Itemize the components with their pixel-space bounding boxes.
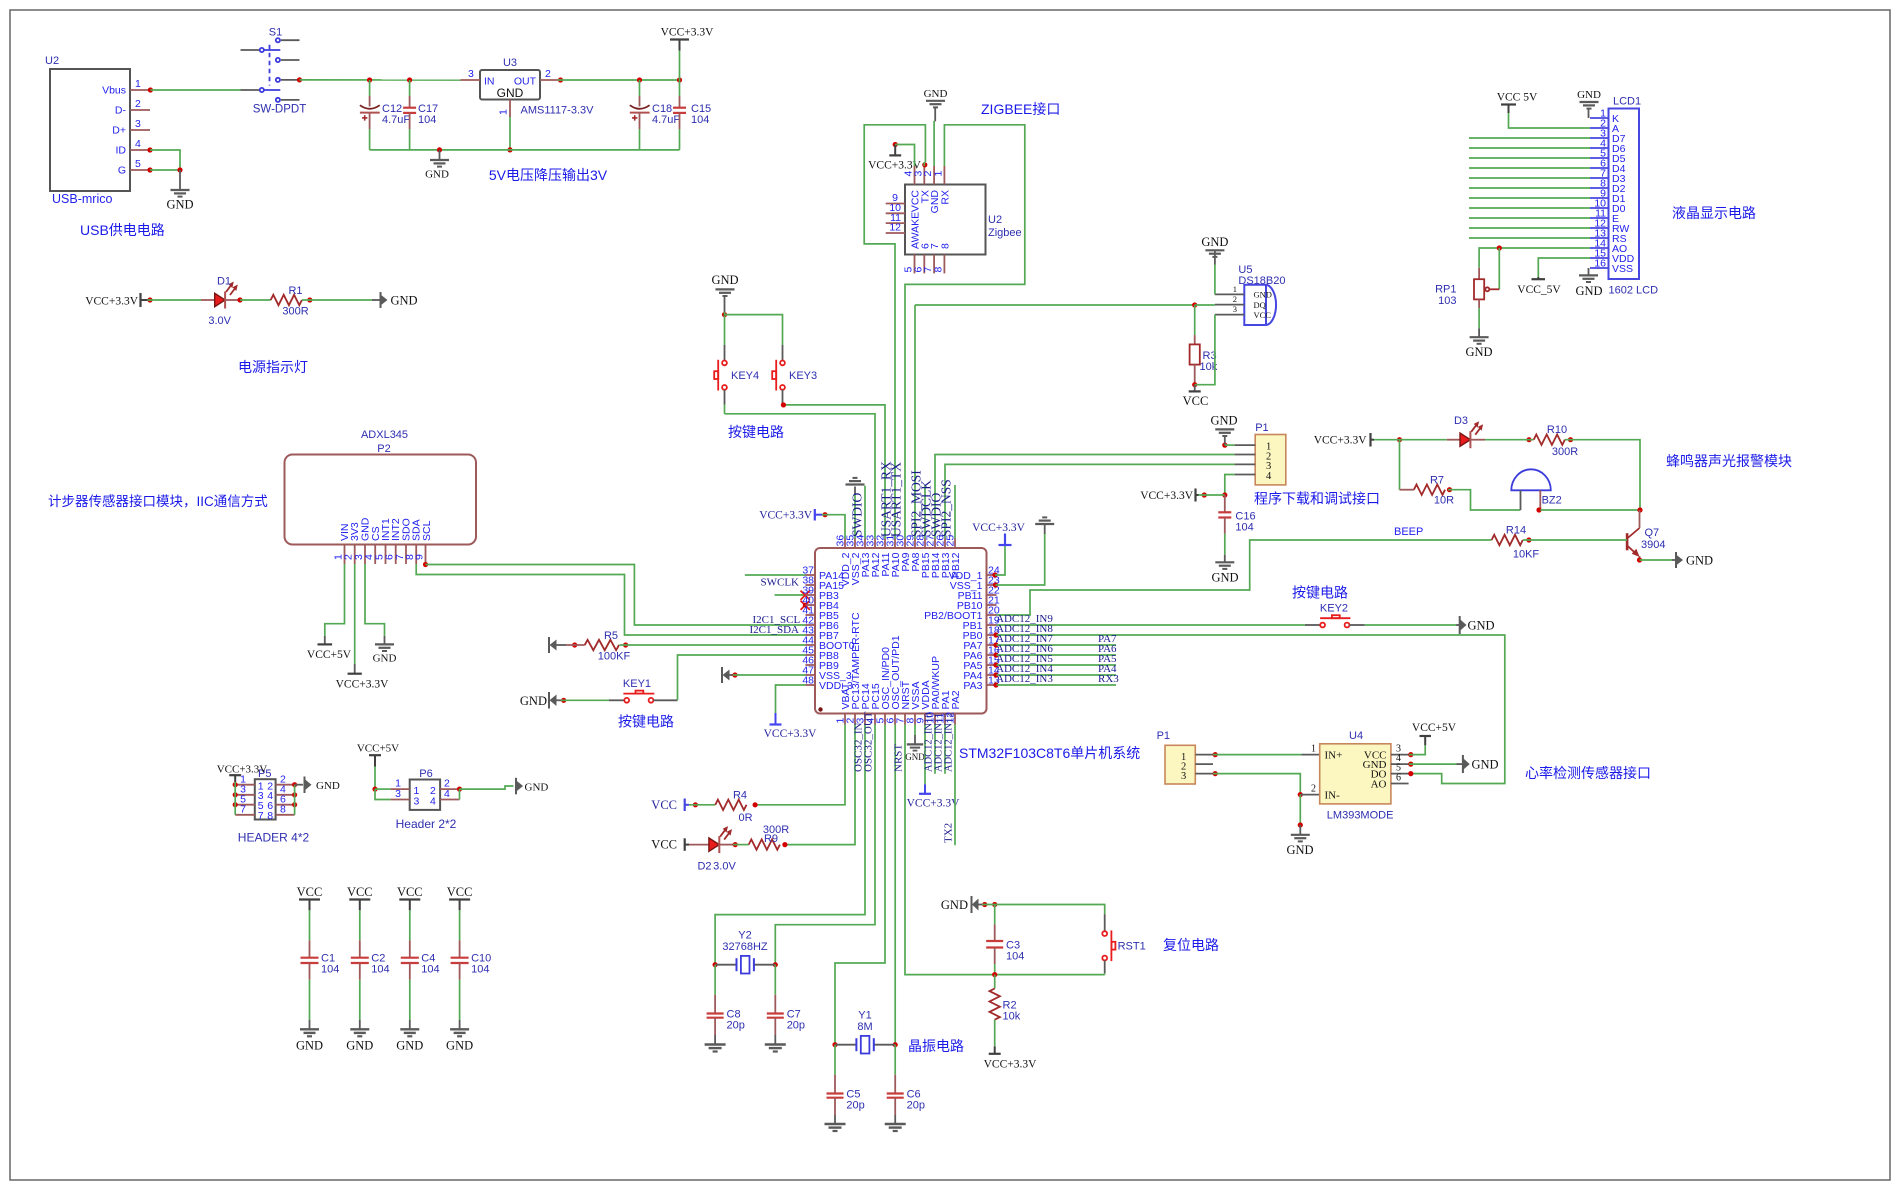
svg-text:VCC+5V: VCC+5V	[307, 649, 352, 661]
P5 pin6	[276, 793, 295, 805]
svg-text:4: 4	[444, 788, 450, 800]
svg-text:GND: GND	[425, 169, 449, 181]
wire PA2 pin12 stub	[954, 725, 956, 846]
svg-text:VCC: VCC	[397, 885, 423, 899]
svg-text:VCC+3.3V: VCC+3.3V	[1314, 435, 1368, 447]
ground arrow left of R5	[549, 637, 566, 653]
MCU pin 40 PB4	[802, 595, 839, 613]
svg-text:IN: IN	[484, 76, 495, 88]
wire VIN to VCC+5V	[325, 564, 345, 636]
wire VSSA pin8 to ground	[914, 725, 916, 745]
LCD pin 14 AO	[1590, 238, 1627, 256]
wire VCC to D3	[1374, 437, 1447, 442]
LCD pin 3 D7	[1590, 128, 1626, 146]
P1h pin3 lead	[1195, 773, 1213, 775]
svg-text:8: 8	[932, 267, 944, 273]
svg-text:USB供电电路: USB供电电路	[80, 222, 165, 238]
zigbee pin 9	[886, 192, 905, 204]
LCD pin 4 D6	[1590, 138, 1626, 156]
svg-text:GND: GND	[941, 898, 968, 912]
MCU pin 32 PA11	[875, 535, 893, 577]
wire PA8 net to DS18B20 DQ	[915, 304, 1195, 306]
svg-text:R4: R4	[733, 789, 747, 801]
ground symbol under C16	[1211, 562, 1238, 584]
ground rail	[370, 147, 680, 152]
P5 pin3	[235, 783, 255, 795]
capacitor C1 104	[301, 940, 340, 980]
LED D3	[1447, 415, 1485, 448]
ground port left of KEY1	[520, 692, 561, 709]
svg-text:USB-mrico: USB-mrico	[52, 192, 112, 206]
svg-text:GND: GND	[1210, 414, 1237, 428]
svg-text:BZ2: BZ2	[1542, 495, 1562, 507]
svg-text:KEY3: KEY3	[789, 370, 817, 382]
svg-text:D1: D1	[217, 276, 231, 288]
LCD pin 16 VSS	[1590, 258, 1633, 276]
wire switch to regulator rail	[300, 77, 461, 82]
svg-text:2: 2	[1233, 294, 1237, 304]
connector LCD1 body	[1609, 96, 1642, 280]
svg-text:KEY4: KEY4	[731, 370, 759, 382]
svg-text:VCC: VCC	[447, 885, 473, 899]
svg-text:8: 8	[280, 803, 286, 815]
power port VCC+3.3V for zigbee	[868, 142, 922, 172]
power port VCC+3.3V at VDD_2	[759, 509, 822, 522]
svg-text:USART1_TX: USART1_TX	[889, 462, 904, 537]
wire R14 to Q7 base	[1523, 537, 1627, 542]
MCU pin 22 PB11	[958, 585, 1000, 603]
U5 pin 2 DQ	[1215, 294, 1244, 304]
wire LCD D0	[1469, 207, 1590, 209]
wire VCC to C10	[459, 910, 461, 940]
svg-text:VCC+3.3V: VCC+3.3V	[336, 679, 390, 691]
svg-text:10KF: 10KF	[1513, 549, 1540, 561]
power port VCC+3.3V above P5	[217, 764, 268, 783]
power port VCC+3.3V under P2	[336, 664, 390, 691]
svg-text:RST1: RST1	[1118, 941, 1146, 953]
wire PB2/BOOT1 pin20 to BEEP net	[997, 540, 1492, 615]
ground arrow right of Q7	[1672, 552, 1713, 568]
power port VCC_5V	[1517, 277, 1561, 296]
ground symbol under rail	[425, 150, 449, 181]
svg-text:VCC_5V: VCC_5V	[1517, 284, 1561, 296]
wire R2 to VCC+3.3V	[994, 1020, 996, 1054]
pin 4 ID	[130, 138, 150, 150]
svg-text:1602 LCD: 1602 LCD	[1609, 285, 1659, 297]
LCD pin 1 K	[1590, 108, 1619, 126]
wire gnd to C3/RST1 top	[982, 902, 1105, 914]
LCD pin 2 A	[1590, 118, 1619, 136]
inverted ground symbol above pin35	[846, 478, 865, 485]
wire OSC_OUT pin6 to Y1 right	[894, 725, 896, 1045]
power port VCC for D2	[651, 838, 689, 852]
U4 pin4 GND lead	[1391, 753, 1409, 764]
power port VCC+3.3V (VDD_3)	[764, 713, 818, 740]
wire VSS_2 pin35 to ground	[854, 487, 856, 539]
svg-text:10R: 10R	[1434, 495, 1454, 507]
svg-text:P1: P1	[1157, 730, 1170, 742]
svg-text:VCC: VCC	[347, 885, 373, 899]
power port VCC+3.3V top	[661, 27, 715, 81]
svg-text:D+: D+	[112, 125, 126, 137]
svg-text:5: 5	[135, 158, 141, 170]
wire PA1 pin11 stub	[944, 725, 946, 774]
wire Vbus to switch	[148, 87, 241, 92]
svg-text:PA3: PA3	[963, 680, 982, 692]
svg-text:104: 104	[371, 964, 389, 976]
svg-text:Header 2*2: Header 2*2	[396, 817, 457, 831]
MCU pin 25 PB12	[945, 535, 963, 579]
ground symbol above LCD pin1 K	[1577, 89, 1601, 118]
svg-text:104: 104	[691, 114, 709, 126]
wire 3V3 to VCC+3.3V	[354, 564, 356, 664]
wire VCC to C4	[409, 910, 411, 940]
svg-text:R9: R9	[764, 833, 778, 845]
svg-text:ZIGBEE接口: ZIGBEE接口	[981, 101, 1060, 117]
svg-text:2: 2	[545, 68, 551, 80]
svg-text:VCC+3.3V: VCC+3.3V	[217, 764, 268, 776]
MCU pin 33 PA12	[865, 535, 883, 578]
MCU pin 38 PA15	[802, 575, 844, 593]
svg-text:GND: GND	[373, 653, 397, 665]
connector P5 body	[255, 768, 276, 822]
zigbee pin 8	[932, 255, 944, 274]
svg-text:P1: P1	[1255, 422, 1268, 434]
MCU pin 7 NRST	[895, 680, 913, 724]
wire BZ2 to collector	[1536, 507, 1642, 512]
svg-text:复位电路: 复位电路	[1163, 937, 1219, 953]
wire VCC to C2	[359, 910, 361, 940]
no-connect X on PB3	[801, 591, 810, 600]
MCU pin 34 PA13	[855, 535, 873, 578]
svg-text:3: 3	[468, 68, 474, 80]
wire VDD_2 pin36	[822, 512, 845, 538]
P2 pin 2	[343, 545, 355, 565]
wire D3 to R10	[1485, 437, 1534, 442]
capacitor C4 104	[401, 940, 440, 980]
wire LED to R1	[237, 297, 270, 302]
MCU pin 39 PB3	[802, 585, 839, 603]
svg-text:DS18B20: DS18B20	[1238, 275, 1285, 287]
wire P1 pin4 to VCC+3.3V / C16	[1198, 475, 1235, 498]
MCU pin 4 PC15	[865, 683, 883, 724]
zigbee pin 3 TX	[912, 166, 924, 185]
wire zigbee VCC pin4	[895, 145, 914, 167]
wire pin32 to KEY3	[783, 405, 885, 539]
wire NRST pin7 to reset circuit	[905, 725, 995, 975]
power port VCC+3.3V above pin24	[972, 522, 1026, 545]
P1 pin3 lead	[1235, 463, 1256, 465]
junction dot DQ / R3	[1192, 302, 1215, 307]
capacitor C18 4.7uF (polarized)	[630, 80, 681, 150]
svg-text:VCC+3.3V: VCC+3.3V	[764, 728, 818, 740]
ground arrow right of P6	[516, 778, 548, 795]
wire R3 to VCC	[1192, 382, 1197, 391]
connector P1 body	[1255, 422, 1286, 485]
svg-text:晶振电路: 晶振电路	[908, 1038, 964, 1054]
LCD pin 5 D5	[1590, 148, 1626, 166]
capacitor C10 104	[451, 940, 492, 980]
svg-text:U2: U2	[45, 55, 59, 67]
pin 5 G	[130, 158, 150, 170]
svg-text:GND: GND	[1472, 758, 1499, 772]
svg-text:3.0V: 3.0V	[713, 861, 736, 873]
wire RST1 bottom to NRST rail	[992, 972, 1105, 977]
MCU pin 14 PA4	[963, 665, 999, 683]
junction dot R4 right	[753, 802, 758, 807]
MCU pin 9 VDDA	[915, 680, 933, 724]
svg-text:VCC: VCC	[651, 838, 677, 852]
wire pin31 USART1_RX from zigbee TX	[864, 125, 925, 539]
wire VCC to R4	[689, 802, 715, 807]
wire LCD E	[1469, 217, 1590, 219]
connector P6 body	[410, 768, 440, 810]
svg-text:VCC: VCC	[297, 885, 323, 899]
U5 pin 1 GND	[1215, 284, 1244, 294]
MCU pin 24 VDD_1	[949, 565, 1000, 583]
ground symbol above P1	[1210, 414, 1237, 444]
svg-text:VCC+3.3V: VCC+3.3V	[85, 296, 139, 308]
pin 3 D+	[130, 118, 150, 130]
wire VSS_1 pin23 to ground	[993, 525, 1045, 588]
resistor R10 300R	[1534, 424, 1579, 458]
svg-text:IN+: IN+	[1325, 750, 1343, 762]
svg-text:4: 4	[135, 138, 141, 150]
zigbee pin 11	[886, 212, 905, 224]
svg-text:Q7: Q7	[1645, 527, 1660, 539]
ground symbol VSSA	[905, 744, 925, 762]
wire LCD D6	[1469, 147, 1590, 149]
svg-text:RX3: RX3	[1098, 673, 1119, 685]
svg-text:SCL: SCL	[421, 520, 433, 541]
wire VCC to LED	[147, 297, 201, 302]
MCU pin 21 PB10	[957, 595, 1000, 613]
P6 pin4	[440, 788, 459, 800]
svg-text:VCC 5V: VCC 5V	[1497, 92, 1538, 104]
svg-text:4: 4	[430, 795, 436, 807]
svg-text:8: 8	[267, 810, 273, 822]
U5 pin 3 VCC	[1215, 304, 1244, 314]
MCU pin 43 PB7	[802, 625, 839, 643]
zigbee pin 12	[886, 222, 905, 234]
junction dot zigbee TX	[922, 162, 927, 167]
resistor R2 10k (vertical)	[990, 975, 1021, 1023]
svg-text:GND: GND	[296, 1039, 323, 1053]
svg-text:GND: GND	[1575, 284, 1602, 298]
P6 pin3	[391, 788, 410, 800]
svg-text:VCC+5V: VCC+5V	[1412, 722, 1457, 734]
MCU pin 2 PC13/TAMPER-RTC	[845, 612, 863, 724]
ground symbol above KEY4	[711, 273, 738, 312]
ground symbol under C7	[765, 1045, 786, 1052]
svg-text:VCC+3.3V: VCC+3.3V	[759, 510, 813, 522]
svg-text:GND: GND	[1254, 290, 1272, 300]
svg-text:G: G	[118, 165, 126, 177]
power port VCC+3.3V left of C16	[1140, 489, 1198, 503]
svg-text:104: 104	[418, 114, 436, 126]
wire SCL to MCU PB6	[423, 562, 806, 625]
ground symbol under RP1	[1465, 337, 1492, 359]
wire pin33 to KEY4	[725, 414, 876, 539]
svg-text:7: 7	[258, 810, 264, 822]
svg-text:0R: 0R	[738, 812, 752, 824]
MCU pin 37 PA14	[802, 565, 844, 583]
resistor R1 300R	[271, 285, 309, 318]
wire C16 to ground	[1224, 534, 1226, 563]
svg-text:3: 3	[414, 795, 420, 807]
svg-text:电源指示灯: 电源指示灯	[238, 359, 308, 375]
wire LCD D3	[1469, 177, 1590, 179]
MCU pin 26 PB13	[935, 535, 953, 579]
svg-text:ADC12_IN3: ADC12_IN3	[996, 673, 1053, 685]
svg-text:VCC: VCC	[1254, 310, 1272, 320]
wire C1 to ground	[309, 980, 311, 1030]
svg-text:20p: 20p	[787, 1019, 805, 1031]
svg-text:104: 104	[321, 964, 339, 976]
zigbee pin 6	[912, 255, 924, 274]
LCD pin 8 D2	[1590, 178, 1626, 196]
zigbee pin 2 GND	[922, 166, 934, 185]
buzzer BZ2	[1511, 469, 1561, 510]
svg-text:按键电路: 按键电路	[728, 424, 784, 440]
MCU pin 23 VSS_1	[950, 575, 1000, 593]
svg-text:1: 1	[498, 109, 510, 115]
svg-text:IN-: IN-	[1325, 790, 1341, 802]
MCU pin 29 PA8	[905, 535, 923, 572]
wire D2 to R9	[733, 842, 749, 847]
P1h pin2 lead	[1195, 763, 1213, 765]
svg-text:20p: 20p	[907, 1099, 925, 1111]
svg-text:20p: 20p	[846, 1099, 864, 1111]
wire PA0 pin10 stub	[934, 725, 936, 774]
wire PA7 pin17	[993, 642, 1116, 647]
push button KEY4	[714, 360, 759, 391]
wire pin28 SPI2_MOSI stub	[924, 485, 926, 539]
LED D1 3.0V	[201, 276, 240, 328]
P5 pin5	[235, 793, 255, 805]
MCU pin 11 PA1	[935, 690, 953, 724]
pin 2 D-	[130, 98, 150, 110]
P2 pin 8	[404, 545, 416, 565]
svg-text:PB12: PB12	[950, 552, 962, 578]
svg-text:KEY1: KEY1	[623, 678, 651, 690]
wire gnd to keys	[722, 312, 783, 361]
op-amp U1 MCU body	[815, 548, 987, 714]
svg-text:OSC32_OUT: OSC32_OUT	[863, 711, 875, 772]
wire U5 VCC pin3 down	[1195, 315, 1215, 385]
svg-text:GND: GND	[1686, 554, 1713, 568]
LCD pin 6 D4	[1590, 158, 1626, 176]
wire PC13 pin2 to R9	[785, 725, 855, 845]
svg-text:GND: GND	[396, 1039, 423, 1053]
wire pin29 PA8 up to DS18B20 DQ	[914, 305, 916, 539]
svg-text:GND: GND	[166, 198, 193, 212]
wire to R5	[566, 642, 585, 647]
svg-text:8M: 8M	[857, 1021, 872, 1033]
resistor R4 0R	[715, 789, 752, 824]
ground symbol under LCD VSS	[1575, 268, 1602, 298]
svg-text:Y1: Y1	[858, 1010, 871, 1022]
wire LCD D4	[1469, 167, 1590, 169]
svg-text:1: 1	[135, 78, 141, 90]
wire IN- to ground	[1298, 795, 1303, 835]
wire LCD A to VCC 5V	[1509, 113, 1591, 128]
wire SWDIO pin34	[864, 486, 866, 539]
LCD pin 11 E	[1590, 208, 1619, 226]
ground arrow VSS_3	[722, 667, 733, 683]
P2 pin 4	[363, 545, 375, 565]
wire RP1 to ground	[1478, 308, 1480, 337]
ground symbol below USB	[166, 190, 193, 212]
ground arrow reset	[941, 896, 982, 913]
svg-text:GND: GND	[1211, 571, 1238, 585]
svg-text:LCD1: LCD1	[1613, 96, 1641, 108]
LCD pin 15 VDD	[1590, 248, 1635, 266]
svg-text:GND: GND	[1286, 843, 1313, 857]
wire pin27 SWDCLK to P1 pin2	[935, 455, 1235, 539]
power port VCC+5V above U4	[1412, 722, 1457, 745]
svg-text:NRST: NRST	[893, 744, 905, 772]
wire R7 to BZ2	[1447, 487, 1521, 510]
wire ID+G to ground	[147, 147, 182, 190]
svg-text:GND: GND	[497, 86, 524, 100]
svg-text:103: 103	[1438, 295, 1456, 307]
svg-text:S1: S1	[269, 27, 282, 39]
MCU pin 20 PB2/BOOT1	[924, 605, 1000, 623]
svg-text:104: 104	[471, 964, 489, 976]
svg-text:DQ: DQ	[1254, 300, 1266, 310]
wire pin30 USART1_TX from zigbee RX	[905, 125, 1025, 539]
transistor Q7 3904	[1627, 510, 1665, 560]
power port VCC for R4	[651, 798, 689, 812]
LCD pin 7 D3	[1590, 168, 1626, 186]
svg-text:RX: RX	[939, 190, 951, 205]
svg-text:LM393MODE: LM393MODE	[1327, 810, 1394, 822]
svg-text:SWDIO: SWDIO	[850, 493, 865, 537]
svg-text:VSS: VSS	[1612, 263, 1633, 275]
svg-text:16: 16	[1594, 258, 1606, 270]
svg-text:1: 1	[1233, 284, 1237, 294]
resistor R7 10R	[1414, 475, 1454, 507]
MCU pin 46 PB9	[802, 655, 839, 673]
zigbee pin 4 VCC	[903, 166, 915, 185]
P1h pin1 lead	[1195, 754, 1213, 756]
svg-text:104: 104	[421, 964, 439, 976]
svg-text:6: 6	[1396, 772, 1401, 783]
svg-text:3: 3	[395, 788, 401, 800]
svg-text:D2: D2	[697, 861, 711, 873]
wire to MCU VSS_3	[732, 672, 805, 677]
svg-text:7: 7	[240, 803, 246, 815]
svg-text:3: 3	[135, 118, 141, 130]
power port VCC+3.3V under R2	[984, 1054, 1038, 1071]
svg-text:104: 104	[1235, 522, 1253, 534]
capacitor C2 104	[351, 940, 390, 980]
wire P5 left column	[233, 782, 238, 815]
LCD pin 12 RW	[1590, 218, 1629, 236]
svg-text:计步器传感器接口模块，IIC通信方式: 计步器传感器接口模块，IIC通信方式	[48, 493, 268, 509]
svg-text:U4: U4	[1349, 730, 1363, 742]
svg-text:U3: U3	[503, 57, 517, 69]
wire MCU VDD_3 to VCC+3.3V	[776, 685, 806, 713]
MCU pin 27 PB14	[925, 535, 943, 579]
ground symbol under C8	[705, 1045, 726, 1052]
wire KEY2 to GND	[1365, 624, 1456, 626]
crystal Y1 8M	[832, 1010, 897, 1054]
power port VCC+3.3V left	[85, 293, 147, 308]
svg-text:P2: P2	[377, 443, 390, 455]
ground symbol under P2	[373, 636, 397, 665]
